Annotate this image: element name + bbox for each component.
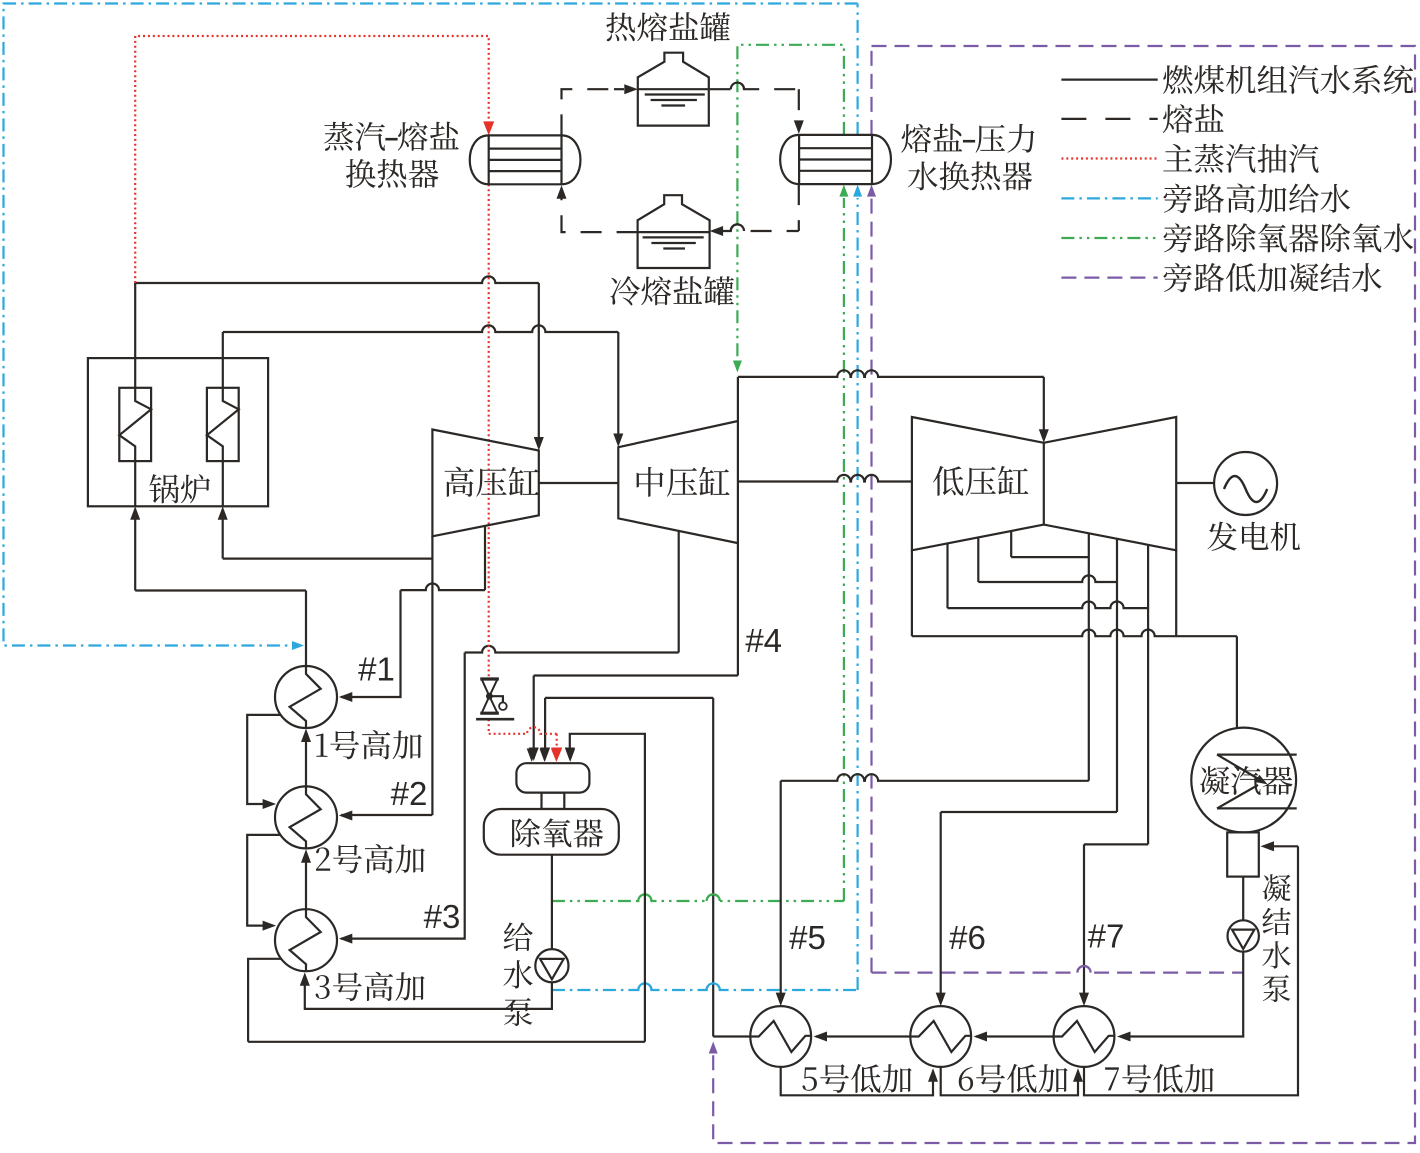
svg-text:#7: #7: [1088, 917, 1125, 954]
svg-text:#3: #3: [424, 898, 461, 935]
svg-text:#6: #6: [949, 919, 986, 956]
svg-text:#5: #5: [789, 919, 826, 956]
svg-text:#4: #4: [745, 622, 782, 659]
svg-text:#2: #2: [391, 775, 428, 812]
svg-text:#1: #1: [358, 650, 395, 687]
